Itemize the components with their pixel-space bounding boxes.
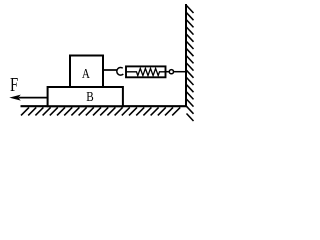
ground	[21, 105, 188, 107]
svg-text:A: A	[82, 66, 90, 81]
force arrow F	[19, 97, 48, 99]
spring zigzag	[127, 68, 166, 75]
ring at wall side	[169, 70, 173, 74]
wire rod box to ring	[166, 71, 169, 73]
hook (open ring)	[117, 68, 123, 76]
svg-text:F: F	[10, 73, 18, 96]
ground hatching	[21, 107, 180, 115]
spring-scale body box	[126, 66, 166, 77]
wall hatching	[187, 6, 194, 122]
wall	[185, 4, 187, 107]
wire rod ring to wall	[174, 71, 186, 73]
block B	[48, 87, 123, 106]
svg-text:B: B	[86, 89, 93, 104]
block A	[70, 56, 103, 88]
wire rod from A to hook	[104, 69, 118, 71]
